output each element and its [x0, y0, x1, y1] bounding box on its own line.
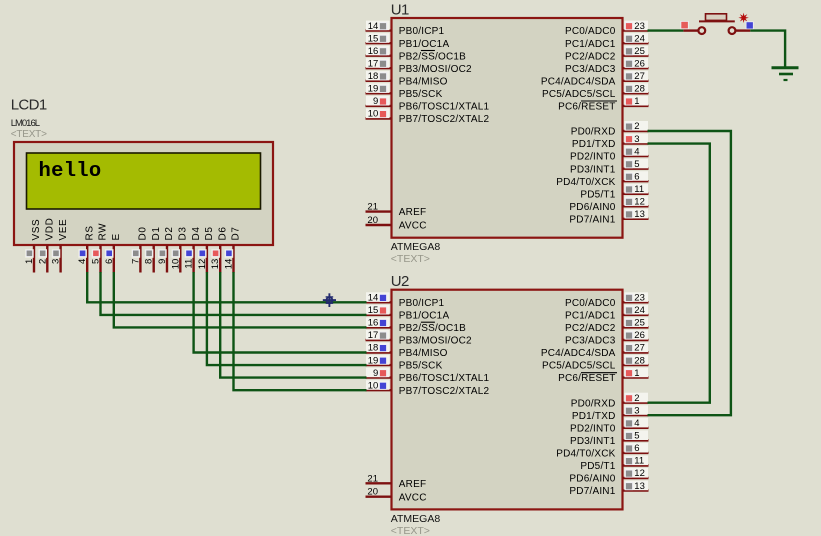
U1 pin 18 PB4/MISO	[366, 80, 392, 82]
svg-text:6: 6	[634, 171, 639, 182]
node state square (button right)	[746, 22, 753, 29]
U1 pin 15 PB1/OC1A	[366, 42, 392, 44]
U2 pin 19 PB5/SCK	[366, 364, 392, 366]
push button left lead	[683, 29, 698, 31]
U1 pin 4 PD2/INT0	[623, 155, 649, 157]
svg-text:4: 4	[634, 418, 639, 429]
wire U1.PD1/TXD -> U2.PD0/RXD	[648, 144, 710, 403]
wire D5->PB5	[207, 272, 367, 365]
svg-text:<TEXT>: <TEXT>	[391, 525, 430, 536]
U2 pin 18 PB4/MISO	[366, 351, 392, 353]
svg-text:14: 14	[224, 259, 235, 270]
svg-text:PD6/AIN0: PD6/AIN0	[569, 202, 615, 213]
svg-text:10: 10	[368, 380, 379, 391]
U1 pin 14 PB0/ICP1	[366, 29, 392, 31]
U2 pin 12 PD6/AIN0	[623, 477, 649, 479]
svg-text:PD5/T1: PD5/T1	[580, 189, 615, 200]
U2 pin 2 PD0/RXD	[623, 402, 649, 404]
svg-text:24: 24	[634, 305, 645, 316]
U2 pin 4 PD2/INT0	[623, 427, 649, 429]
svg-text:PC6/RESET: PC6/RESET	[558, 102, 615, 113]
svg-text:VDD: VDD	[45, 218, 56, 241]
svg-text:15: 15	[368, 33, 379, 44]
svg-text:D6: D6	[217, 227, 228, 241]
wire U1.PC0/ADC0 -> button	[648, 29, 684, 31]
svg-text:5: 5	[634, 431, 639, 442]
svg-text:2: 2	[634, 393, 639, 404]
svg-text:13: 13	[634, 481, 645, 492]
svg-text:RS: RS	[84, 225, 95, 240]
svg-text:17: 17	[368, 58, 379, 69]
svg-text:4: 4	[77, 259, 88, 264]
svg-text:26: 26	[634, 58, 645, 69]
svg-text:PB6/TOSC1/XTAL1: PB6/TOSC1/XTAL1	[399, 373, 490, 384]
svg-text:PC5/ADC5/SCL: PC5/ADC5/SCL	[542, 361, 616, 372]
svg-text:AVCC: AVCC	[399, 221, 427, 232]
U1 pin 21 AREF	[366, 210, 392, 212]
svg-text:19: 19	[368, 355, 379, 366]
node state square (button left)	[681, 21, 688, 28]
svg-text:U2: U2	[391, 273, 409, 290]
U1 pin 23 PC0/ADC0	[623, 29, 649, 31]
svg-text:13: 13	[210, 259, 221, 270]
svg-text:PC2/ADC2: PC2/ADC2	[565, 323, 616, 334]
svg-text:PC3/ADC3: PC3/ADC3	[565, 336, 616, 347]
svg-text:1: 1	[634, 96, 639, 107]
U2 pin 25 PC2/ADC2	[623, 326, 649, 328]
svg-text:LM016L: LM016L	[11, 118, 40, 129]
svg-text:PC3/ADC3: PC3/ADC3	[565, 64, 616, 75]
svg-text:21: 21	[367, 202, 378, 213]
push button actuator bar	[699, 20, 735, 22]
svg-text:PB0/ICP1: PB0/ICP1	[399, 26, 445, 37]
svg-text:12: 12	[634, 468, 645, 479]
svg-text:3: 3	[634, 405, 639, 416]
svg-text:PC1/ADC1: PC1/ADC1	[565, 39, 616, 50]
U2 pin 6 PD4/T0/XCK	[623, 452, 649, 454]
svg-text:PB1/OC1A: PB1/OC1A	[399, 311, 450, 322]
svg-text:PD7/AIN1: PD7/AIN1	[569, 214, 615, 225]
svg-text:RW: RW	[98, 223, 109, 241]
svg-text:PB3/MOSI/OC2: PB3/MOSI/OC2	[399, 336, 472, 347]
svg-text:16: 16	[368, 318, 379, 329]
svg-text:PD5/T1: PD5/T1	[580, 461, 615, 472]
U1 pin 25 PC2/ADC2	[623, 55, 649, 57]
svg-text:4: 4	[634, 146, 639, 157]
U2 pin 13 PD7/AIN1	[623, 489, 649, 491]
push button interactive star marker	[738, 13, 748, 23]
sheet origin marker	[323, 293, 336, 307]
svg-text:ATMEGA8: ATMEGA8	[391, 241, 441, 253]
svg-text:PD4/T0/XCK: PD4/T0/XCK	[556, 449, 615, 460]
U1 pin 12 PD6/AIN0	[623, 205, 649, 207]
svg-text:PD7/AIN1: PD7/AIN1	[569, 486, 615, 497]
svg-text:10: 10	[170, 259, 181, 270]
svg-text:AREF: AREF	[399, 207, 426, 218]
svg-text:28: 28	[634, 84, 645, 95]
svg-text:PB4/MISO: PB4/MISO	[399, 76, 448, 87]
svg-text:18: 18	[368, 343, 379, 354]
svg-text:28: 28	[634, 355, 645, 366]
U2 pin 26 PC3/ADC3	[623, 339, 649, 341]
svg-text:PB1/OC1A: PB1/OC1A	[399, 39, 450, 50]
svg-text:D2: D2	[164, 227, 175, 241]
U1 pin 6 PD4/T0/XCK	[623, 180, 649, 182]
svg-text:PD1/TXD: PD1/TXD	[572, 139, 616, 150]
svg-text:9: 9	[373, 368, 378, 379]
svg-text:1: 1	[634, 368, 639, 379]
IC U1 ATMEGA8 body	[392, 18, 623, 238]
svg-text:21: 21	[367, 473, 378, 484]
svg-text:PB7/TOSC2/XTAL2: PB7/TOSC2/XTAL2	[399, 386, 490, 397]
svg-text:ATMEGA8: ATMEGA8	[391, 513, 441, 525]
svg-text:3: 3	[634, 134, 639, 145]
svg-text:PC4/ADC4/SDA: PC4/ADC4/SDA	[541, 348, 616, 359]
svg-text:PD2/INT0: PD2/INT0	[570, 423, 616, 434]
U1 pin 27 PC4/ADC4/SDA	[623, 80, 649, 82]
wire D4->PB4	[194, 272, 367, 353]
wire D7->PB7	[234, 272, 367, 390]
svg-text:25: 25	[634, 46, 645, 57]
svg-text:VEE: VEE	[58, 219, 69, 241]
U2 pin 1 PC6/RESET	[623, 376, 649, 378]
U2 pin 28 PC5/ADC5/SCL	[623, 364, 649, 366]
IC U2 ATMEGA8 body	[392, 290, 623, 510]
svg-text:20: 20	[367, 487, 378, 498]
wire RS->PB0	[87, 272, 366, 302]
U1 pin 3 PD1/TXD	[623, 142, 649, 144]
svg-text:27: 27	[634, 71, 645, 82]
wire RW->PB1	[101, 272, 367, 315]
U2 pin 23 PC0/ADC0	[623, 301, 649, 303]
LCD screen	[27, 153, 261, 209]
svg-text:PD6/AIN0: PD6/AIN0	[569, 474, 615, 485]
wire U1.PD0/RXD -> U2.PD1/TXD	[648, 131, 731, 415]
svg-text:<TEXT>: <TEXT>	[391, 253, 430, 265]
svg-text:25: 25	[634, 318, 645, 329]
svg-text:PD0/RXD: PD0/RXD	[571, 127, 616, 138]
svg-text:11: 11	[634, 456, 644, 467]
svg-text:E: E	[111, 233, 122, 240]
U2 pin 21 AREF	[366, 482, 392, 484]
svg-text:15: 15	[368, 305, 379, 316]
svg-text:AVCC: AVCC	[399, 492, 427, 503]
svg-text:VSS: VSS	[31, 219, 42, 241]
svg-text:PD1/TXD: PD1/TXD	[572, 411, 616, 422]
svg-text:PC0/ADC0: PC0/ADC0	[565, 298, 616, 309]
svg-text:PB2/SS/OC1B: PB2/SS/OC1B	[399, 323, 466, 334]
svg-text:PD3/INT1: PD3/INT1	[570, 436, 616, 447]
U1 pin 16 PB2/SS/OC1B	[366, 55, 392, 57]
push button right lead	[735, 29, 750, 31]
U1 pin 20 AVCC	[366, 224, 392, 226]
U2 pin 3 PD1/TXD	[623, 414, 649, 416]
svg-text:PB5/SCK: PB5/SCK	[399, 89, 443, 100]
U2 pin 11 PD5/T1	[623, 464, 649, 466]
U1 pin 10 PB7/TOSC2/XTAL2	[366, 117, 392, 119]
svg-text:PC2/ADC2: PC2/ADC2	[565, 51, 616, 62]
svg-text:6: 6	[634, 443, 639, 454]
svg-text:hello: hello	[39, 160, 102, 183]
U2 pin 17 PB3/MOSI/OC2	[366, 339, 392, 341]
U1 pin 9 PB6/TOSC1/XTAL1	[366, 105, 392, 107]
U2 pin 15 PB1/OC1A	[366, 314, 392, 316]
svg-text:AREF: AREF	[399, 479, 426, 490]
svg-text:27: 27	[634, 343, 645, 354]
U1 pin 17 PB3/MOSI/OC2	[366, 67, 392, 69]
wire button -> ground	[750, 31, 785, 67]
svg-text:PB3/MOSI/OC2: PB3/MOSI/OC2	[399, 64, 472, 75]
LCD LCD1 body	[14, 142, 273, 245]
svg-text:PB0/ICP1: PB0/ICP1	[399, 298, 445, 309]
svg-text:D5: D5	[204, 227, 215, 241]
svg-text:12: 12	[197, 259, 208, 270]
svg-text:LCD1: LCD1	[11, 96, 47, 113]
svg-text:14: 14	[368, 293, 379, 304]
svg-text:PB2/SS/OC1B: PB2/SS/OC1B	[399, 51, 466, 62]
svg-text:D3: D3	[178, 227, 189, 241]
svg-text:5: 5	[634, 159, 639, 170]
U2 pin 20 AVCC	[366, 496, 392, 498]
U1 pin 28 PC5/ADC5/SCL	[623, 92, 649, 94]
svg-text:PD3/INT1: PD3/INT1	[570, 164, 616, 175]
svg-text:PC1/ADC1: PC1/ADC1	[565, 311, 616, 322]
U1 pin 13 PD7/AIN1	[623, 218, 649, 220]
svg-text:26: 26	[634, 330, 645, 341]
svg-text:6: 6	[104, 259, 115, 264]
svg-text:12: 12	[634, 197, 645, 208]
svg-text:D7: D7	[231, 227, 242, 241]
U2 pin 9 PB6/TOSC1/XTAL1	[366, 376, 392, 378]
U1 pin 24 PC1/ADC1	[623, 42, 649, 44]
svg-text:9: 9	[157, 259, 168, 264]
U1 pin 2 PD0/RXD	[623, 130, 649, 132]
svg-text:23: 23	[634, 293, 645, 304]
svg-text:PC6/RESET: PC6/RESET	[558, 373, 615, 384]
wire E->PB2	[114, 272, 367, 327]
svg-text:9: 9	[373, 96, 378, 107]
svg-text:7: 7	[130, 259, 141, 264]
svg-text:2: 2	[634, 121, 639, 132]
svg-text:PD2/INT0: PD2/INT0	[570, 152, 616, 163]
svg-text:PB4/MISO: PB4/MISO	[399, 348, 448, 359]
U2 pin 27 PC4/ADC4/SDA	[623, 351, 649, 353]
svg-text:PB6/TOSC1/XTAL1: PB6/TOSC1/XTAL1	[399, 102, 490, 113]
svg-text:16: 16	[368, 46, 379, 57]
svg-text:14: 14	[368, 21, 379, 32]
svg-text:PC0/ADC0: PC0/ADC0	[565, 26, 616, 37]
svg-text:11: 11	[184, 259, 195, 269]
svg-text:8: 8	[144, 259, 155, 264]
svg-text:PC5/ADC5/SCL: PC5/ADC5/SCL	[542, 89, 616, 100]
ground symbol	[772, 66, 799, 69]
svg-text:13: 13	[634, 209, 645, 220]
svg-text:2: 2	[37, 259, 48, 264]
U1 pin 5 PD3/INT1	[623, 167, 649, 169]
svg-text:D1: D1	[151, 227, 162, 241]
svg-text:24: 24	[634, 33, 645, 44]
push button right contact	[729, 27, 736, 34]
svg-text:20: 20	[367, 215, 378, 226]
svg-text:11: 11	[634, 184, 644, 195]
svg-text:D0: D0	[138, 227, 149, 241]
svg-text:PB5/SCK: PB5/SCK	[399, 361, 443, 372]
U2 pin 5 PD3/INT1	[623, 439, 649, 441]
wire D6->PB6	[220, 272, 366, 378]
U2 pin 10 PB7/TOSC2/XTAL2	[366, 389, 392, 391]
U1 pin 11 PD5/T1	[623, 193, 649, 195]
svg-text:5: 5	[91, 259, 102, 264]
U2 pin 16 PB2/SS/OC1B	[366, 326, 392, 328]
push button left contact	[698, 27, 705, 34]
svg-text:23: 23	[634, 21, 645, 32]
U2 pin 14 PB0/ICP1	[366, 301, 392, 303]
U1 pin 26 PC3/ADC3	[623, 67, 649, 69]
svg-text:10: 10	[368, 109, 379, 120]
U1 pin 1 PC6/RESET	[623, 105, 649, 107]
svg-text:<TEXT>: <TEXT>	[11, 129, 47, 140]
svg-text:19: 19	[368, 84, 379, 95]
U2 pin 24 PC1/ADC1	[623, 314, 649, 316]
svg-text:3: 3	[51, 259, 62, 264]
U1 pin 19 PB5/SCK	[366, 92, 392, 94]
push button actuator cap	[706, 14, 727, 21]
svg-text:U1: U1	[391, 1, 409, 18]
svg-text:PC4/ADC4/SDA: PC4/ADC4/SDA	[541, 76, 616, 87]
svg-text:PD0/RXD: PD0/RXD	[571, 398, 616, 409]
svg-text:D4: D4	[191, 227, 202, 241]
svg-text:1: 1	[24, 259, 35, 264]
svg-text:18: 18	[368, 71, 379, 82]
svg-text:PB7/TOSC2/XTAL2: PB7/TOSC2/XTAL2	[399, 114, 490, 125]
svg-text:PD4/T0/XCK: PD4/T0/XCK	[556, 177, 615, 188]
svg-text:17: 17	[368, 330, 379, 341]
